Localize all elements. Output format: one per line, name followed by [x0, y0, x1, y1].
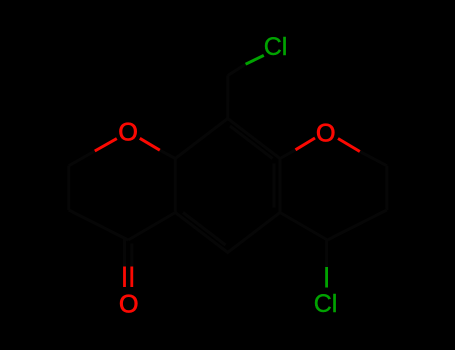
- wire red half of O1-C8a bond (left ring): [140, 138, 160, 150]
- left pyranone ring: O1-C2 black half: [69, 151, 95, 166]
- right ring C4'-C4a': [280, 213, 327, 241]
- wire red half of O1'-C8a' bond (right ring): [296, 138, 316, 150]
- wire red half of O1-C2 bond (left ring): [95, 139, 117, 151]
- svg-text:O: O: [118, 118, 137, 146]
- svg-text:O: O: [316, 120, 335, 148]
- right ring C2'-C3': [385, 166, 388, 210]
- left ring C3-C4: [69, 210, 129, 240]
- svg-text:Cl: Cl: [264, 33, 288, 61]
- wire CH2-C(benzene top): [226, 76, 229, 119]
- right ring C3'-C4': [327, 210, 387, 240]
- wire red half of O1'-C2' bond (right ring): [338, 139, 360, 152]
- left ring O1-C8a black half: [160, 150, 176, 158]
- benzene ring: [175, 119, 280, 253]
- carbonyl C4=O black halves: [125, 239, 132, 267]
- svg-text:O: O: [119, 290, 138, 318]
- wire black half of C4'-Cl bond: [325, 240, 328, 267]
- left ring C4-C4a: [128, 213, 175, 241]
- svg-text:Cl: Cl: [314, 290, 338, 318]
- left ring C2-C3: [67, 166, 70, 210]
- right pyran ring: O1'-C2' black half: [360, 152, 387, 166]
- wire green half of CH2-Cl bond: [246, 55, 264, 64]
- benzene inner double bond lines: [183, 126, 274, 245]
- carbonyl C4=O red double bond halves: [125, 267, 132, 288]
- wire black half of CH2-Cl bond: [228, 64, 246, 75]
- right ring O1'-C8a' black half: [280, 150, 296, 159]
- wire green half of C4'-Cl bond: [325, 267, 328, 288]
